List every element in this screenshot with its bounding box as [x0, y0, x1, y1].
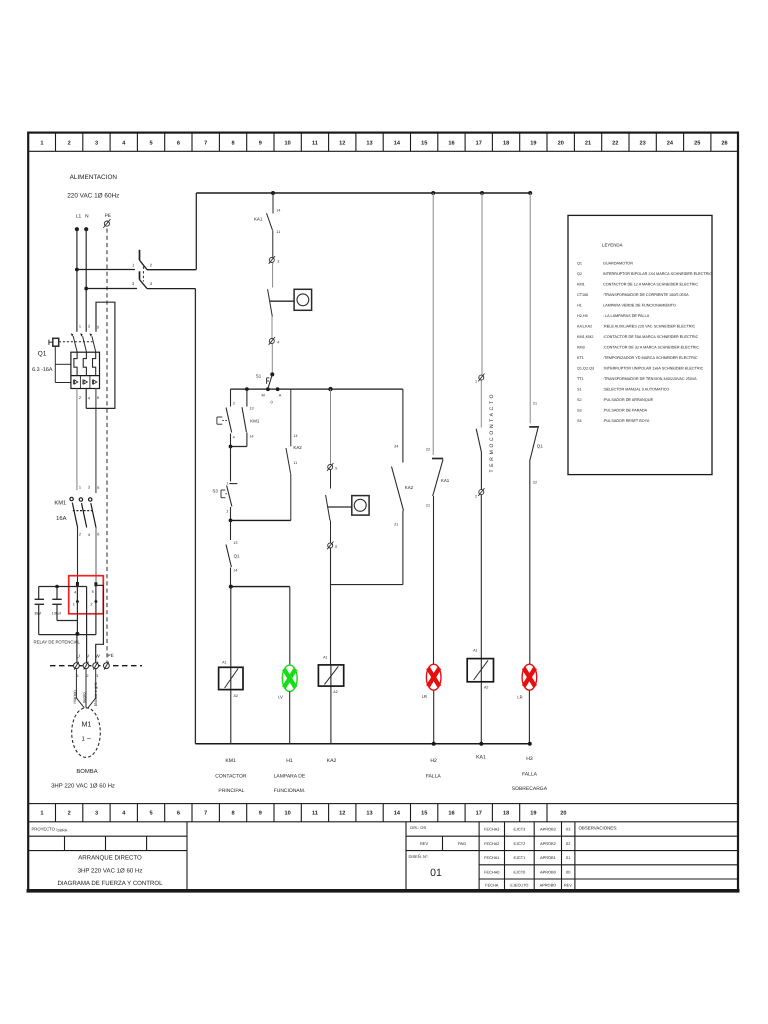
top column number strip [28, 133, 738, 152]
lamp H2 red [426, 664, 441, 690]
svg-text:S4: S4 [577, 419, 582, 423]
svg-text:21: 21 [426, 504, 430, 508]
left rail [194, 289, 196, 744]
svg-text:01: 01 [566, 855, 570, 860]
svg-text:21: 21 [394, 523, 398, 527]
svg-text::PULSADOR DE ARRANQUE: :PULSADOR DE ARRANQUE [603, 398, 654, 402]
svg-text:5: 5 [92, 589, 94, 594]
svg-text:S3: S3 [212, 489, 218, 494]
svg-text:U: U [77, 654, 80, 659]
bottom column number strip [28, 804, 738, 822]
svg-text:13: 13 [366, 811, 372, 817]
svg-text:8: 8 [231, 141, 234, 147]
svg-text:6: 6 [177, 811, 180, 817]
svg-text:DIAGRAMA DE FUERZA Y CONTROL: DIAGRAMA DE FUERZA Y CONTROL [57, 880, 163, 887]
svg-text:5: 5 [97, 485, 99, 490]
svg-text:13: 13 [366, 141, 372, 147]
legend box [568, 215, 712, 474]
svg-text:APROBO: APROBO [540, 882, 557, 887]
title block left texts [32, 827, 68, 833]
svg-text:REV.: REV. [564, 882, 573, 887]
svg-text:1: 1 [226, 482, 228, 486]
svg-text::TRANSFORMADOR DE TENSION 440/: :TRANSFORMADOR DE TENSION 440/220VAC 250… [603, 377, 697, 381]
svg-text:KA2: KA2 [293, 445, 302, 450]
joining wire [331, 584, 403, 586]
svg-text:8: 8 [231, 811, 234, 817]
panel boundary dashed [50, 665, 142, 667]
svg-text:03: 03 [566, 827, 570, 832]
contactor KM1 contacts [70, 497, 96, 527]
svg-text:Q1: Q1 [537, 444, 543, 449]
relay terminals 4,5,1,2 [76, 582, 98, 604]
breaker Q1 trip dashed line + handle [59, 341, 93, 343]
svg-text:Q1: Q1 [234, 554, 240, 559]
svg-text:21: 21 [585, 141, 591, 147]
capacitor 130uf [52, 587, 77, 621]
svg-text:A1: A1 [323, 656, 327, 660]
svg-text:H1: H1 [286, 758, 293, 764]
svg-text:15: 15 [421, 811, 427, 817]
svg-text:10: 10 [284, 811, 290, 817]
svg-text:SOBRECARGA: SOBRECARGA [512, 786, 548, 792]
svg-text:RELAY DE POTENCIAL: RELAY DE POTENCIAL [34, 640, 81, 645]
svg-text:L1: L1 [76, 214, 82, 220]
svg-text:APROB3: APROB3 [540, 827, 556, 832]
svg-text:Q1: Q1 [38, 351, 47, 358]
svg-text::INTERRUPTOR UNIPOLAR 1x6A SCH: :INTERRUPTOR UNIPOLAR 1x6A SCHNEIDER ELE… [603, 367, 704, 371]
svg-text:14: 14 [233, 569, 237, 573]
svg-text:25: 25 [694, 141, 700, 147]
svg-text:2: 2 [68, 811, 71, 817]
motor feed wires [76, 669, 95, 708]
wire to KA1 coil [480, 495, 482, 744]
switch Q2 pole 3-4 [86, 271, 195, 288]
float switch S4 [326, 470, 369, 543]
relay internal wires [39, 584, 104, 663]
junction + H1 feed [229, 585, 233, 589]
wire N vertical [85, 229, 87, 332]
contact KA2 24-21 [392, 389, 404, 584]
svg-text:KM1: KM1 [225, 758, 236, 764]
svg-text:16: 16 [448, 811, 454, 817]
svg-text:Q1,Q2,Q3: Q1,Q2,Q3 [577, 367, 594, 371]
svg-text:19: 19 [530, 811, 536, 817]
wire to KM1 coil [230, 587, 232, 744]
svg-text:S3: S3 [577, 409, 582, 413]
svg-text:A2: A2 [234, 694, 238, 698]
svg-text:A2: A2 [333, 690, 337, 694]
svg-text:4: 4 [277, 341, 279, 345]
svg-text:KA1: KA1 [476, 755, 486, 761]
svg-text:FECHA3: FECHA3 [484, 827, 499, 832]
svg-text:5: 5 [335, 467, 337, 471]
svg-text:11: 11 [293, 461, 297, 465]
svg-text:A1: A1 [222, 661, 226, 665]
svg-text:KA2: KA2 [327, 758, 337, 764]
contact Q1 21-22 NC [529, 193, 531, 423]
svg-text:REV: REV [420, 841, 429, 846]
svg-text:marron: marron [72, 690, 77, 704]
terminal 6 [327, 542, 333, 550]
svg-text:11: 11 [312, 811, 318, 817]
svg-text:: LA LAMPARAS DE FALLA: : LA LAMPARAS DE FALLA [603, 314, 650, 318]
svg-text:220 VAC 1Ø 60Hz: 220 VAC 1Ø 60Hz [67, 193, 119, 200]
svg-text:7: 7 [204, 141, 207, 147]
svg-text:16: 16 [448, 141, 454, 147]
svg-text:24: 24 [667, 141, 674, 147]
svg-text:FECHA1: FECHA1 [484, 855, 499, 860]
svg-text:14: 14 [249, 435, 253, 439]
breaker Q1 body [71, 352, 100, 388]
svg-text:KA2: KA2 [405, 485, 414, 490]
svg-text:KA1: KA1 [254, 217, 263, 222]
svg-text:22: 22 [612, 141, 618, 147]
svg-text:4: 4 [233, 436, 235, 440]
svg-text:PE: PE [105, 213, 111, 219]
motor M1 [72, 708, 101, 758]
svg-text:2: 2 [90, 601, 92, 606]
svg-text:11: 11 [312, 141, 318, 147]
branch KA2 coil: terminal 5 [330, 389, 332, 464]
svg-text:6: 6 [335, 545, 337, 549]
terminal 1 [478, 374, 484, 382]
svg-text:CT100: CT100 [577, 293, 588, 297]
svg-text:14: 14 [276, 209, 280, 213]
svg-text:6: 6 [97, 395, 99, 400]
svg-text:22: 22 [426, 448, 430, 452]
svg-text:9: 9 [259, 811, 262, 817]
svg-text:W: W [95, 654, 100, 659]
svg-text:3HP 220 VAC 1Ø 60 Hz: 3HP 220 VAC 1Ø 60 Hz [78, 867, 143, 874]
svg-text::PULSADOR RESET BOYA: :PULSADOR RESET BOYA [603, 419, 650, 423]
svg-text:23: 23 [639, 141, 645, 147]
svg-text:21: 21 [533, 402, 537, 406]
svg-text:130uf: 130uf [52, 612, 61, 616]
svg-text:H2,H3: H2,H3 [577, 314, 588, 318]
svg-text:LR: LR [517, 695, 522, 700]
control supply riser [195, 193, 197, 270]
svg-text:1: 1 [79, 485, 81, 490]
svg-text:LEYENDA: LEYENDA [602, 243, 623, 248]
svg-text:6.3 -16A: 6.3 -16A [32, 367, 53, 373]
svg-text:TT1: TT1 [577, 377, 584, 381]
svg-text:2: 2 [79, 532, 81, 537]
svg-text:M1: M1 [82, 720, 92, 729]
svg-text:H2: H2 [430, 758, 437, 764]
svg-text::RELE AUXILIARES 220 VAC SCHNE: :RELE AUXILIARES 220 VAC SCHNEIDER ELECT… [603, 325, 696, 329]
svg-text:LV: LV [278, 695, 283, 700]
svg-text:EJCT3: EJCT3 [513, 827, 525, 832]
svg-text:APROB1: APROB1 [540, 855, 556, 860]
svg-text:2: 2 [68, 141, 71, 147]
red highlight box [69, 576, 104, 614]
top rail [196, 192, 530, 194]
svg-text::CONTACTOR DE 32 A MARCA SCHNE: :CONTACTOR DE 32 A MARCA SCHNEIDER ELECT… [603, 346, 699, 350]
svg-text:EJCT2: EJCT2 [513, 841, 525, 846]
svg-text:13: 13 [249, 407, 253, 411]
svg-text:blanco o gris: blanco o gris [93, 682, 98, 706]
svg-text:LAMPARA VERDE DE FUNCIONAMIENT: LAMPARA VERDE DE FUNCIONAMIENTO [603, 304, 676, 308]
svg-text:5: 5 [97, 325, 99, 330]
wire [272, 263, 274, 288]
svg-text:9: 9 [259, 141, 262, 147]
svg-text:KM1: KM1 [250, 419, 260, 424]
wire to H1 [289, 587, 291, 666]
contact KA2 14-11 [286, 389, 291, 520]
svg-text:14: 14 [394, 811, 401, 817]
svg-text:OBSERVACIONES:: OBSERVACIONES: [579, 826, 618, 831]
svg-text:GUARDAMOTOR: GUARDAMOTOR [603, 262, 633, 266]
svg-text:CONTACTOR: CONTACTOR [215, 774, 247, 780]
lamp H3 red [522, 664, 537, 690]
svg-text:5: 5 [150, 141, 153, 147]
svg-text:10: 10 [284, 141, 290, 147]
float switch contact B1 [268, 289, 312, 338]
svg-text:KM3: KM3 [577, 346, 585, 350]
svg-text:3: 3 [96, 674, 98, 678]
svg-text:1: 1 [77, 674, 79, 678]
svg-text:14: 14 [394, 141, 401, 147]
svg-text:18: 18 [503, 141, 509, 147]
svg-text:3: 3 [88, 485, 90, 490]
svg-text:3: 3 [233, 402, 235, 406]
svg-text:16A: 16A [56, 515, 66, 522]
svg-text:TERMOCONTACTO: TERMOCONTACTO [489, 392, 495, 473]
svg-text:negro: negro [82, 692, 87, 703]
svg-text:FALLA: FALLA [522, 772, 538, 778]
breaker Q1 outputs [76, 389, 78, 491]
svg-text::SELECTOR MANUAL 0 AUTOMATICO: :SELECTOR MANUAL 0 AUTOMATICO [603, 388, 669, 392]
svg-text:19: 19 [530, 141, 536, 147]
svg-text:BOMBA: BOMBA [76, 768, 97, 775]
svg-text:1: 1 [40, 811, 43, 817]
svg-text:13: 13 [233, 541, 237, 545]
wire down to KA2 coil [330, 548, 332, 665]
junction [231, 446, 247, 448]
svg-text:APROB0: APROB0 [540, 869, 557, 874]
svg-text:12: 12 [339, 811, 345, 817]
wire [271, 344, 273, 373]
title block grid [28, 822, 738, 891]
svg-text:26: 26 [721, 141, 727, 147]
svg-text:PRINCIPAL: PRINCIPAL [218, 788, 244, 794]
pushbutton S3 [221, 484, 237, 521]
lamp H1 green [282, 665, 297, 691]
svg-text:N: N [85, 214, 89, 220]
wire [230, 447, 232, 482]
svg-text:A: A [279, 393, 282, 398]
svg-text:S1: S1 [577, 388, 582, 392]
svg-text:3HP 220 VAC 1Ø 60 Hz: 3HP 220 VAC 1Ø 60 Hz [51, 782, 115, 789]
terminals U V W PE [77, 653, 114, 659]
svg-text:H1: H1 [577, 304, 582, 308]
svg-text:S2: S2 [577, 398, 582, 402]
terminal 3 [269, 256, 275, 264]
svg-text:02: 02 [566, 841, 570, 846]
contactor KM1 outputs [77, 528, 79, 585]
neutral return loop through pole 5-6 [86, 302, 115, 408]
svg-text:KM1: KM1 [577, 283, 585, 287]
svg-text:2: 2 [475, 495, 477, 499]
wire L1 vertical [76, 229, 78, 332]
contact KA1 22-21 NC [432, 193, 434, 455]
svg-text:LR: LR [422, 694, 427, 699]
svg-text:2: 2 [226, 510, 228, 514]
svg-text:11: 11 [276, 230, 280, 234]
svg-text:O/S.: OS: O/S.: OS [410, 825, 426, 830]
svg-text:LAMPARA DE: LAMPARA DE [274, 774, 306, 780]
breaker Q1 thermal elements [74, 352, 96, 375]
svg-text:A2: A2 [484, 686, 488, 690]
bottom component labels [215, 755, 547, 795]
terminal 2 [478, 488, 484, 496]
svg-text:M: M [262, 393, 265, 398]
terminal 4 [269, 337, 275, 345]
svg-text:ARRANQUE DIRECTO: ARRANQUE DIRECTO [78, 854, 142, 861]
svg-text::PULSADOR DE PARADA: :PULSADOR DE PARADA [603, 409, 648, 413]
svg-text::CONTACTOR DE 50A MARCA SCHNEI: :CONTACTOR DE 50A MARCA SCHNEIDER ELECTR… [603, 335, 699, 339]
legend entries [577, 262, 712, 424]
svg-text:2: 2 [79, 395, 81, 400]
svg-text:PAG: PAG [458, 841, 466, 846]
svg-text:20: 20 [558, 141, 564, 147]
svg-text:6: 6 [177, 141, 180, 147]
svg-text:KT1: KT1 [577, 356, 584, 360]
svg-text:12: 12 [339, 141, 345, 147]
breaker Q1 trip arrows [71, 333, 92, 336]
svg-text:01: 01 [430, 867, 442, 879]
svg-text:EJCT1: EJCT1 [513, 855, 525, 860]
contact KA1 14-11 [267, 193, 274, 257]
svg-text:A1: A1 [473, 649, 477, 653]
svg-text:3: 3 [95, 141, 98, 147]
svg-text:FALLA: FALLA [426, 774, 442, 780]
thermal contact [476, 380, 481, 489]
svg-text:2: 2 [87, 674, 89, 678]
svg-text:17: 17 [476, 141, 482, 147]
svg-text:KM1,KM2: KM1,KM2 [577, 335, 593, 339]
svg-text:EJECUTO: EJECUTO [510, 882, 528, 887]
contact Q1 13-14 [226, 520, 231, 586]
svg-text:KA1: KA1 [441, 478, 450, 483]
svg-text:ALIMENTACION: ALIMENTACION [70, 174, 118, 181]
switch Q2 pole 1-2 [77, 250, 196, 270]
svg-text:Q1: Q1 [577, 262, 582, 266]
svg-text:Q2: Q2 [577, 272, 582, 276]
svg-text:KA1,KA2: KA1,KA2 [577, 325, 592, 329]
svg-text::TEMPORIZADOR YD MARCA SCHNEID: :TEMPORIZADOR YD MARCA SCHNEIDER ELECTRI… [603, 356, 698, 360]
bottom rail [195, 743, 531, 745]
svg-text:24: 24 [394, 445, 398, 449]
svg-text:1: 1 [79, 324, 81, 329]
svg-text:H3: H3 [526, 756, 533, 762]
capacitor 35uf [35, 587, 44, 635]
revision table texts [484, 827, 572, 888]
svg-text:35uf: 35uf [34, 612, 41, 616]
title block right texts [409, 825, 467, 859]
control mid rail [231, 388, 403, 390]
border frame [27, 133, 740, 891]
branch KA1 coil / termocontacto [481, 193, 483, 375]
svg-text:DISEÑ. N°:: DISEÑ. N°: [409, 854, 429, 859]
breaker Q1 magnetic trip boxes [73, 376, 96, 389]
svg-text:1 ∼: 1 ∼ [81, 736, 91, 743]
selector S1 [270, 372, 274, 376]
svg-text:1: 1 [475, 380, 477, 384]
svg-text:KM1: KM1 [54, 501, 66, 507]
svg-text:APROB2: APROB2 [540, 841, 556, 846]
svg-text:3: 3 [277, 260, 279, 264]
svg-text:S1: S1 [256, 374, 262, 379]
svg-text:PE: PE [108, 653, 114, 658]
contact KM1 13-14 [242, 389, 247, 446]
svg-text:20: 20 [560, 811, 566, 817]
svg-text:FECHA0: FECHA0 [484, 869, 500, 874]
svg-text:6: 6 [97, 532, 99, 537]
svg-text:1: 1 [73, 601, 75, 606]
Q2 linkage dashes [142, 267, 144, 282]
svg-text:5: 5 [150, 811, 153, 817]
wire PE dashed [106, 229, 108, 663]
svg-text:18: 18 [503, 811, 509, 817]
svg-text:17: 17 [476, 811, 482, 817]
svg-text:FECHA2: FECHA2 [484, 841, 499, 846]
svg-text:OBRA: OBRA [57, 829, 68, 833]
pushbutton S2 [217, 389, 232, 446]
svg-text:PROYECTO :: PROYECTO : [32, 827, 58, 832]
svg-text:FECHA: FECHA [485, 882, 499, 887]
svg-text:CONTACTOR DE 12 A MARCA SCHNEI: CONTACTOR DE 12 A MARCA SCHNEIDER ELECTR… [603, 283, 698, 287]
svg-text:22: 22 [533, 481, 537, 485]
junction to KA2 [231, 519, 291, 521]
svg-text:1: 1 [40, 141, 43, 147]
svg-text:FUNCIONAM.: FUNCIONAM. [274, 788, 306, 794]
svg-text:14: 14 [293, 434, 297, 438]
svg-text:7: 7 [204, 811, 207, 817]
svg-text:15: 15 [421, 141, 427, 147]
svg-text:EJCT0: EJCT0 [513, 869, 526, 874]
wire colour labels [72, 682, 98, 706]
svg-text:3: 3 [88, 324, 90, 329]
svg-text::TRANSFORMADOR DE CORRIENTE 10: :TRANSFORMADOR DE CORRIENTE 100/5 05SA [603, 293, 689, 297]
svg-text:INTERRUPTOR BIPOLAR 2X4 MARCA: INTERRUPTOR BIPOLAR 2X4 MARCA SCHNEIDER … [603, 272, 712, 276]
svg-text:3: 3 [95, 811, 98, 817]
